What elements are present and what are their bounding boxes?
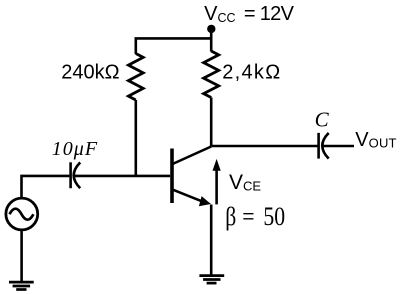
arrow VCE shaft <box>215 170 218 204</box>
transistor Q1 emitter lead <box>173 190 203 202</box>
node VCC dot <box>207 25 215 33</box>
ground (source) <box>9 282 34 289</box>
transistor Q1 base bar <box>170 149 174 204</box>
svg-text:10μF: 10μF <box>52 138 98 160</box>
capacitor C left plate <box>317 133 320 159</box>
svg-text:C: C <box>315 108 330 132</box>
arrow VCE head <box>213 159 221 171</box>
transistor Q1 collector lead <box>173 147 212 165</box>
wire collector node to capacitor C <box>211 145 318 148</box>
wire source top to capacitor C1 <box>22 176 70 197</box>
wire capacitor C to VOUT <box>323 145 354 148</box>
label beta = 50 <box>225 202 285 232</box>
wire capacitor C1 to base <box>74 175 170 178</box>
svg-text:VCC= 12V: VCC= 12V <box>204 3 294 25</box>
capacitor C right curved plate <box>322 133 328 159</box>
svg-text:β=50: β=50 <box>225 202 285 232</box>
resistor R2 <box>204 51 219 98</box>
transistor Q1 emitter arrowhead <box>199 196 211 206</box>
svg-text:VOUT: VOUT <box>355 129 396 151</box>
AC source sine wave <box>10 209 34 220</box>
wire emitter down to ground <box>210 205 213 277</box>
resistor R1 <box>128 54 143 101</box>
wire R2 bottom down to collector node <box>210 98 213 147</box>
wire R1 bottom down to base node <box>135 100 138 177</box>
wire VCC stub down to R2 top <box>210 29 213 52</box>
svg-text:240kΩ: 240kΩ <box>61 62 119 84</box>
svg-text:2,4kΩ: 2,4kΩ <box>222 61 281 83</box>
ground (emitter) <box>199 276 224 284</box>
capacitor C1 left plate <box>69 162 72 188</box>
capacitor C1 right curved plate <box>74 162 80 188</box>
wire top rail over to R1 <box>136 38 211 54</box>
wire source bottom to ground <box>20 230 23 282</box>
svg-text:VCE: VCE <box>229 171 261 194</box>
AC source circle <box>6 198 38 230</box>
